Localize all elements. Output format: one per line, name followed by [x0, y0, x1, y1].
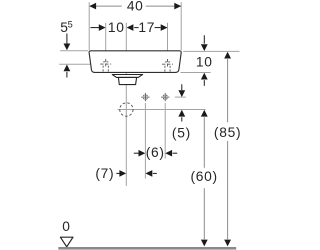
extension line left boundary of 40 — [88, 2, 90, 50]
extension line basin bottom right — [181, 72, 211, 74]
trap flange — [112, 75, 142, 78]
extension line center / drain axis — [125, 23, 127, 186]
svg-text:(60): (60) — [191, 169, 218, 184]
dimension (6) arrows — [134, 152, 139, 154]
extension line tap hole right — [167, 23, 169, 59]
svg-text:0: 0 — [62, 219, 70, 234]
extension line right boundary of 40 — [180, 2, 182, 50]
dimension 5.5 arrow down — [66, 34, 68, 45]
dimension (85) arrow up — [224, 52, 231, 59]
dimension 40 arrow right — [174, 3, 181, 10]
svg-text:(85): (85) — [214, 125, 241, 140]
extension line apron bottom left — [59, 63, 90, 65]
extension line basin top right — [183, 50, 239, 52]
drain circle — [120, 103, 133, 116]
svg-text:40: 40 — [127, 0, 144, 13]
dimension 5.5 arrow up — [64, 65, 71, 72]
dimension 10 right arrow up — [201, 73, 208, 80]
dimension 40 arrow left — [89, 3, 96, 10]
floor line — [58, 247, 236, 250]
dimension (60) line lower and arrow down — [203, 188, 205, 239]
tap hole right — [162, 59, 173, 72]
svg-text:10: 10 — [108, 20, 125, 35]
dimension 10 right arrow down — [203, 35, 205, 43]
fixing hole right — [161, 93, 169, 101]
extension line fixing hole right — [164, 103, 166, 159]
fixing hole left — [141, 93, 149, 101]
svg-text:(5): (5) — [172, 125, 191, 140]
dimension 40 line — [90, 5, 122, 7]
dimension 10 top arrow right / 17 left arrow — [127, 24, 134, 31]
dimension (5) arrow up — [178, 110, 185, 117]
svg-text:(7): (7) — [95, 166, 114, 181]
svg-text:(6): (6) — [146, 145, 165, 160]
extension line fixing hole left — [144, 103, 146, 179]
dimension (60) arrow up — [201, 110, 208, 117]
dimension 10 top arrow left — [90, 27, 99, 29]
tap hole left — [100, 59, 111, 72]
dimension (85) line lower and arrow down — [227, 141, 229, 239]
svg-text:17: 17 — [138, 20, 155, 35]
extension line tap hole left — [105, 23, 107, 59]
dimension (7) arrows — [116, 172, 120, 174]
extension line fixing hole level tick — [175, 96, 186, 98]
svg-text:5: 5 — [68, 20, 74, 30]
extension line trap level 60 — [118, 109, 206, 111]
datum triangle — [60, 237, 73, 247]
dimension 17 line and right arrow — [155, 27, 161, 29]
extension line basin top left — [60, 50, 88, 52]
svg-text:10: 10 — [196, 54, 213, 69]
basin outline — [89, 51, 181, 73]
dimension (5) arrow down — [181, 84, 183, 90]
trap body — [118, 77, 136, 84]
